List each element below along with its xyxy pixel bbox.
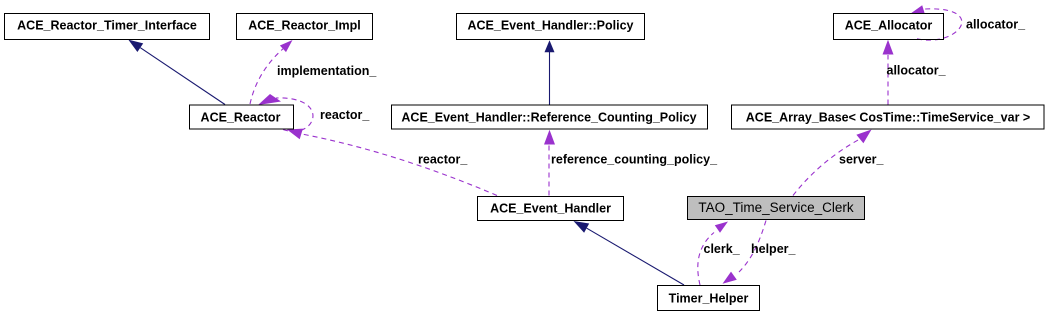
svg-text:helper_: helper_ [751,242,797,256]
svg-text:ACE_Event_Handler: ACE_Event_Handler [490,202,611,216]
svg-text:implementation_: implementation_ [277,64,377,78]
svg-text:ACE_Reactor: ACE_Reactor [201,110,281,124]
svg-text:server_: server_ [839,153,885,167]
svg-text:Timer_Helper: Timer_Helper [669,292,749,306]
svg-text:ACE_Allocator: ACE_Allocator [845,19,933,33]
svg-text:clerk_: clerk_ [704,242,741,256]
svg-text:ACE_Event_Handler::Reference_C: ACE_Event_Handler::Reference_Counting_Po… [401,110,696,124]
svg-text:ACE_Reactor_Impl: ACE_Reactor_Impl [248,19,361,33]
svg-text:allocator_: allocator_ [887,64,947,78]
svg-text:TAO_Time_Service_Clerk: TAO_Time_Service_Clerk [698,200,854,215]
svg-text:reference_counting_policy_: reference_counting_policy_ [551,153,718,167]
svg-text:allocator_: allocator_ [966,17,1026,31]
svg-text:reactor_: reactor_ [320,108,370,122]
svg-text:ACE_Event_Handler::Policy: ACE_Event_Handler::Policy [467,19,633,33]
svg-text:reactor_: reactor_ [418,153,468,167]
svg-text:ACE_Array_Base< CosTime::TimeS: ACE_Array_Base< CosTime::TimeService_var… [746,110,1030,124]
svg-text:ACE_Reactor_Timer_Interface: ACE_Reactor_Timer_Interface [17,19,197,33]
